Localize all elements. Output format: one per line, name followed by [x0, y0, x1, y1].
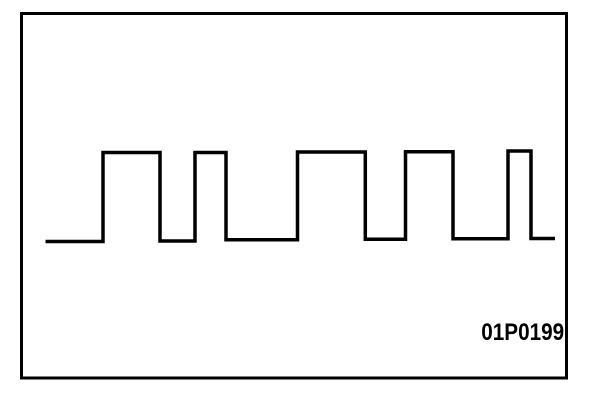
pulse waveform signal trace: [46, 151, 556, 242]
figure label 01P0199: [481, 321, 564, 345]
